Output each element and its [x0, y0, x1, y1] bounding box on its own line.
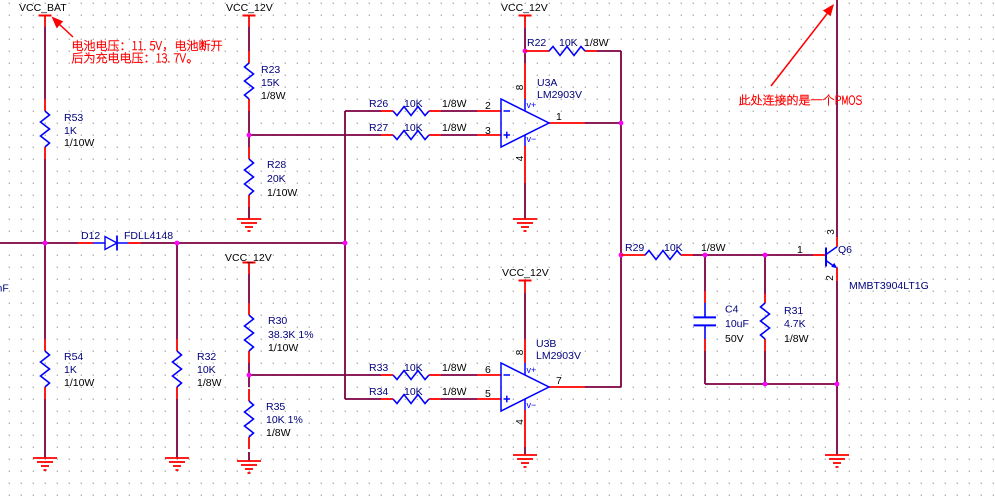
- svg-text:8: 8: [515, 349, 526, 355]
- annotation arrow to PMOS wire: [771, 4, 834, 86]
- wire divider2 node to R33: [249, 374, 381, 376]
- svg-text:Q6: Q6: [838, 244, 852, 256]
- wire U3A output node down: [620, 123, 622, 255]
- wire D12 cathode to node: [141, 242, 177, 244]
- svg-text:10K: 10K: [404, 386, 423, 398]
- wire vertical x345 (R26 to R34 corner): [344, 111, 346, 399]
- resistor R29 pins: [621, 254, 693, 256]
- resistor R33 pins: [381, 374, 441, 376]
- op-amp U3A: [501, 99, 549, 147]
- svg-text:FDLL4148: FDLL4148: [124, 230, 173, 242]
- svg-text:R34: R34: [369, 386, 388, 398]
- svg-text:1/8W: 1/8W: [701, 242, 726, 254]
- wire diode node down to R32: [176, 243, 178, 339]
- svg-text:5: 5: [485, 388, 491, 400]
- svg-text:1: 1: [797, 244, 803, 256]
- capacitor C4: [694, 303, 717, 339]
- resistor R35 pins: [248, 389, 250, 449]
- wire R23 to divider node: [248, 111, 250, 135]
- wire left edge to battery node: [0, 242, 45, 244]
- wire R22 to feedback corner: [597, 50, 621, 52]
- wire feedback vertical: [620, 51, 622, 123]
- wire R28 to ground: [248, 207, 250, 219]
- ground R54: [33, 458, 57, 470]
- svg-text:D12: D12: [81, 230, 100, 242]
- resistor R26: [393, 107, 429, 116]
- ground U3A pin4: [513, 219, 537, 231]
- resistor R22: [549, 47, 585, 56]
- capacitor C4 pins: [704, 291, 706, 351]
- junction rail R31 node: [763, 382, 768, 387]
- svg-text:R53: R53: [64, 112, 83, 124]
- svg-text:MMBT3904LT1G: MMBT3904LT1G: [849, 280, 929, 292]
- junction R22 node: [523, 49, 528, 54]
- wire U3B output corner up to R29 node: [620, 255, 622, 387]
- wire U3A pin4 to ground: [524, 183, 526, 219]
- resistor R28: [245, 159, 254, 195]
- svg-text:10uF: 10uF: [725, 318, 749, 330]
- resistor R23 pins: [248, 51, 250, 111]
- resistor R54: [41, 351, 50, 387]
- svg-text:VCC_12V: VCC_12V: [225, 252, 272, 264]
- transistor Q6: [826, 247, 837, 268]
- junction U3A output node: [619, 121, 624, 126]
- resistor R34: [393, 395, 429, 404]
- ground R35: [237, 461, 261, 473]
- wire divider node to R27: [249, 134, 381, 136]
- svg-text:1/8W: 1/8W: [197, 377, 222, 389]
- resistor R32 pins: [176, 339, 178, 399]
- svg-text:10K: 10K: [664, 242, 683, 254]
- wire battery node to D12 anode: [45, 242, 78, 244]
- wire divider2 node to R35: [248, 375, 250, 387]
- resistor R23: [245, 63, 254, 99]
- svg-text:1/8W: 1/8W: [442, 362, 467, 374]
- power VCC_12V (R23 column): [243, 16, 256, 28]
- wire R54 to ground: [44, 399, 46, 458]
- resistor R26 pins: [381, 110, 441, 112]
- resistor R31: [761, 303, 770, 339]
- svg-text:7: 7: [556, 375, 562, 387]
- resistor R27: [393, 131, 429, 140]
- svg-text:R35: R35: [266, 401, 285, 413]
- svg-text:10K: 10K: [404, 362, 423, 374]
- svg-text:C4: C4: [725, 304, 739, 316]
- svg-text:1/8W: 1/8W: [784, 333, 809, 345]
- wire VCC_BAT to R53: [44, 27, 46, 99]
- svg-text:1/10W: 1/10W: [267, 187, 297, 199]
- svg-text:v+: v+: [527, 100, 537, 110]
- svg-text:1/8W: 1/8W: [266, 427, 291, 439]
- svg-text:R28: R28: [267, 159, 286, 171]
- svg-text:15K: 15K: [261, 77, 280, 89]
- svg-text:v−: v−: [527, 400, 537, 410]
- junction C4 top node: [703, 253, 708, 258]
- resistor R31 pins: [764, 294, 766, 351]
- svg-text:1/10W: 1/10W: [268, 342, 298, 354]
- junction diode node: [175, 241, 180, 246]
- wire diode node to x345 vertical: [177, 242, 345, 244]
- ground Q6 emitter: [825, 455, 849, 467]
- resistor R33: [393, 371, 429, 380]
- svg-text:3: 3: [826, 229, 837, 235]
- svg-text:1/10W: 1/10W: [64, 137, 94, 149]
- wire R32 to ground: [176, 399, 178, 458]
- resistor R53: [41, 111, 50, 147]
- svg-text:R29: R29: [625, 242, 644, 254]
- svg-text:20K: 20K: [267, 173, 286, 185]
- wire corner to R26: [345, 110, 381, 112]
- wire x345 corner to R34: [345, 398, 381, 400]
- wire C4 to bottom rail: [704, 351, 706, 384]
- transistor Q6 pins: [813, 237, 837, 281]
- wire U3A output to feedback node: [585, 122, 621, 124]
- svg-text:VCC_12V: VCC_12V: [226, 2, 273, 14]
- diode D12 pins: [78, 242, 141, 244]
- wire U3B VCC to pin8: [524, 293, 526, 339]
- svg-text:2: 2: [825, 275, 836, 281]
- svg-text:50V: 50V: [725, 333, 744, 345]
- ground U3B pin4: [513, 455, 537, 467]
- wire R53 to battery node: [44, 159, 46, 243]
- wire U3B pin4 to ground: [524, 447, 526, 455]
- wire R33 to U3B pin6: [441, 374, 477, 376]
- wire R31 node to Q6 base: [765, 254, 813, 256]
- svg-text:8: 8: [515, 84, 526, 90]
- resistor R29: [645, 251, 681, 260]
- svg-text:1K: 1K: [64, 125, 77, 137]
- wire VCC_12V to R23: [248, 27, 250, 51]
- op-amp U3A pins: [477, 63, 585, 183]
- wire battery node down to R54: [44, 243, 46, 339]
- resistor R35: [245, 401, 254, 437]
- junction battery node: [43, 241, 48, 246]
- svg-text:4.7K: 4.7K: [784, 318, 806, 330]
- svg-text:R31: R31: [784, 305, 803, 317]
- svg-text:v+: v+: [527, 365, 537, 375]
- svg-text:1/8W: 1/8W: [442, 386, 467, 398]
- wire R22 node to U3A pin8: [524, 51, 526, 63]
- resistor R32: [173, 351, 182, 387]
- svg-text:VCC_BAT: VCC_BAT: [19, 2, 67, 14]
- wire R27 to U3A pin3: [441, 134, 477, 136]
- resistor R54 pins: [44, 339, 46, 399]
- resistor R53 pins: [44, 99, 46, 159]
- junction R31 top node: [763, 253, 768, 258]
- power VCC_12V (U3B column): [519, 281, 532, 294]
- svg-text:VCC_12V: VCC_12V: [501, 2, 548, 14]
- svg-text:1/8W: 1/8W: [442, 98, 467, 110]
- svg-text:U3A: U3A: [537, 77, 557, 89]
- annotation text battery voltage line 2: [72, 52, 191, 63]
- svg-text:R30: R30: [268, 315, 287, 327]
- wire R31 node down: [764, 255, 766, 294]
- svg-text:10K 1%: 10K 1%: [266, 414, 303, 426]
- wire R34 to U3B pin5: [441, 398, 477, 400]
- op-amp U3B: [501, 363, 549, 411]
- junction rail Q6 node: [835, 382, 840, 387]
- wire R29 to C4 node: [693, 254, 705, 256]
- wire Q6 emitter to rail: [836, 281, 838, 384]
- svg-text:1/8W: 1/8W: [261, 90, 286, 102]
- resistor R30 pins: [248, 303, 250, 363]
- svg-text:1/8W: 1/8W: [584, 37, 609, 49]
- junction divider node: [247, 133, 252, 138]
- svg-text:4: 4: [515, 155, 526, 161]
- svg-text:4: 4: [515, 419, 526, 425]
- wire Q6 collector to top edge (PMOS): [836, 0, 838, 237]
- svg-text:10K: 10K: [559, 37, 578, 49]
- svg-text:10K: 10K: [404, 122, 423, 134]
- svg-text:1/10W: 1/10W: [64, 377, 94, 389]
- svg-text:10K: 10K: [197, 364, 216, 376]
- svg-text:R54: R54: [64, 351, 83, 363]
- junction divider2 node: [247, 373, 252, 378]
- wire rail to ground: [836, 384, 838, 455]
- wire VCC_12V to R22 node: [524, 28, 526, 51]
- svg-text:R27: R27: [369, 122, 388, 134]
- svg-text:3: 3: [485, 125, 491, 137]
- svg-text:1K: 1K: [64, 364, 77, 376]
- wire VCC_12V to R30: [248, 274, 250, 303]
- wire R31 to bottom rail: [764, 351, 766, 384]
- wire U3B output to corner: [585, 386, 621, 388]
- wire C4 node down: [704, 255, 706, 291]
- svg-text:2: 2: [485, 100, 491, 112]
- diode D12: [93, 236, 128, 251]
- resistor R27 pins: [381, 134, 441, 136]
- annotation text battery voltage line 1: [73, 40, 222, 51]
- wire R35 to ground: [248, 452, 250, 461]
- svg-text:10K: 10K: [404, 98, 423, 110]
- op-amp U3B pins: [477, 339, 585, 447]
- power VCC_BAT: [39, 16, 52, 28]
- svg-text:R22: R22: [527, 37, 546, 49]
- resistor R34 pins: [381, 398, 441, 400]
- resistor R28 pins: [248, 147, 250, 207]
- svg-text:1/8W: 1/8W: [442, 122, 467, 134]
- wire C4 node to R31 node: [705, 254, 765, 256]
- annotation text PMOS note: [739, 94, 861, 105]
- ground R28: [237, 219, 261, 231]
- svg-text:nF: nF: [0, 283, 9, 295]
- svg-text:U3B: U3B: [536, 338, 556, 350]
- wire bottom rail: [705, 383, 837, 385]
- ground R32: [165, 458, 189, 470]
- svg-text:LM2903V: LM2903V: [536, 350, 581, 362]
- svg-text:6: 6: [485, 364, 491, 376]
- wire divider node to R28: [248, 135, 250, 147]
- svg-text:LM2903V: LM2903V: [537, 89, 582, 101]
- power VCC_12V (U3A column): [519, 16, 532, 29]
- power VCC_12V (R30 column): [243, 263, 256, 275]
- resistor R22 pins: [525, 50, 597, 52]
- junction R29 node: [619, 253, 624, 258]
- svg-text:R23: R23: [261, 64, 280, 76]
- svg-text:R33: R33: [369, 362, 388, 374]
- svg-text:v−: v−: [527, 134, 537, 144]
- wire R30 to divider2 node: [248, 363, 250, 375]
- resistor R30: [245, 315, 254, 351]
- junction x345 tap: [343, 241, 348, 246]
- svg-text:VCC_12V: VCC_12V: [502, 267, 549, 279]
- svg-text:R26: R26: [369, 98, 388, 110]
- annotation arrow to VCC_BAT: [52, 17, 74, 38]
- wire R26 to U3A pin2: [441, 110, 477, 112]
- svg-text:1: 1: [556, 111, 562, 123]
- svg-text:38.3K 1%: 38.3K 1%: [268, 329, 314, 341]
- svg-text:R32: R32: [197, 351, 216, 363]
